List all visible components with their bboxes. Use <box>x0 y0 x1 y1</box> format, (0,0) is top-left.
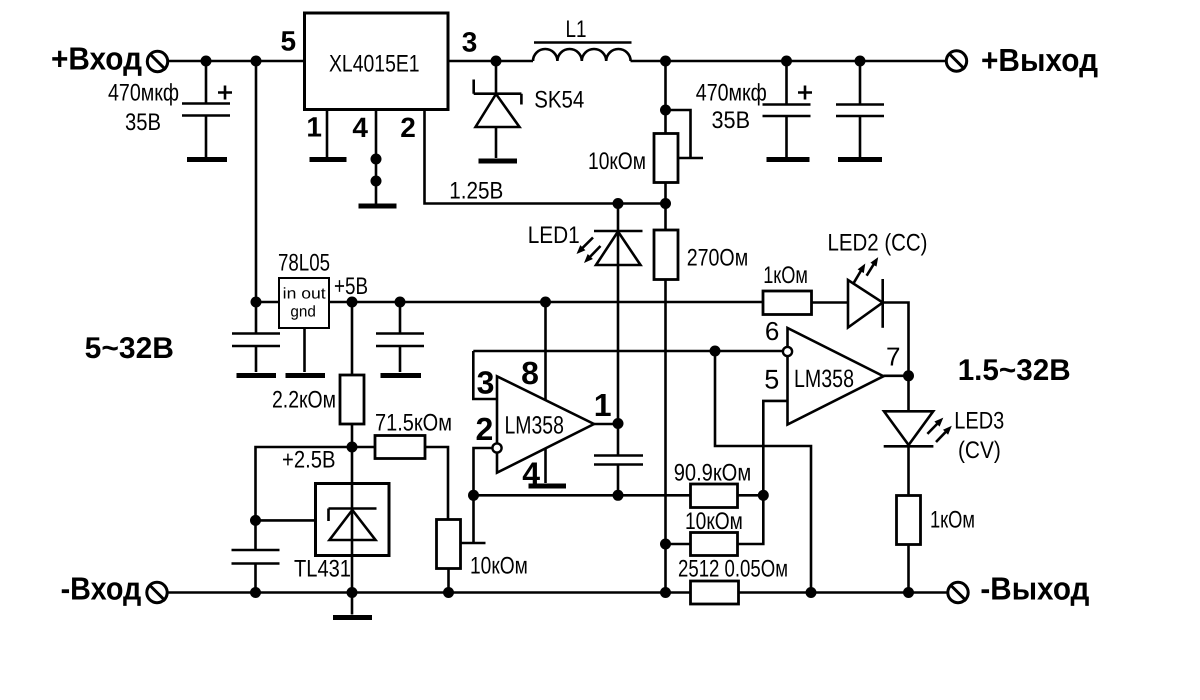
svg-text:LED1: LED1 <box>528 222 580 249</box>
svg-text:+Выход: +Выход <box>981 42 1098 78</box>
svg-text:78L05: 78L05 <box>278 250 330 277</box>
svg-text:8: 8 <box>521 355 539 391</box>
svg-text:LM358: LM358 <box>794 365 854 393</box>
svg-text:SK54: SK54 <box>534 87 584 114</box>
svg-text:1: 1 <box>594 387 612 423</box>
svg-text:2: 2 <box>476 411 494 447</box>
svg-text:3: 3 <box>477 364 495 400</box>
svg-text:1.5~32В: 1.5~32В <box>958 354 1071 387</box>
svg-text:4: 4 <box>522 456 540 492</box>
svg-text:2: 2 <box>400 112 416 143</box>
svg-text:5: 5 <box>281 26 297 57</box>
svg-text:6: 6 <box>765 316 779 346</box>
svg-text:(CV): (CV) <box>958 437 1001 464</box>
svg-text:1.25В: 1.25В <box>449 178 503 205</box>
svg-text:XL4015E1: XL4015E1 <box>329 51 420 78</box>
svg-text:5: 5 <box>764 365 779 395</box>
svg-text:35В: 35В <box>712 107 751 134</box>
svg-text:1кОм: 1кОм <box>763 262 808 289</box>
svg-text:L1: L1 <box>566 16 587 43</box>
svg-text:LED3: LED3 <box>954 408 1004 435</box>
svg-text:+5В: +5В <box>334 273 368 300</box>
svg-text:TL431: TL431 <box>294 556 351 583</box>
svg-text:10кОм: 10кОм <box>470 553 528 580</box>
svg-text:1кОм: 1кОм <box>930 507 975 534</box>
svg-text:270Ом: 270Ом <box>687 245 749 272</box>
svg-text:2.2кОм: 2.2кОм <box>272 387 336 414</box>
svg-text:3: 3 <box>462 27 478 58</box>
svg-text:gnd: gnd <box>290 304 316 321</box>
svg-text:470мкф: 470мкф <box>696 80 767 107</box>
svg-text:5~32В: 5~32В <box>85 332 174 365</box>
svg-text:+Вход: +Вход <box>51 41 142 77</box>
svg-text:470мкф: 470мкф <box>108 80 179 107</box>
svg-text:10кОм: 10кОм <box>588 148 646 175</box>
svg-text:LM358: LM358 <box>505 411 564 439</box>
svg-text:in out: in out <box>283 286 327 303</box>
svg-text:10кОм: 10кОм <box>685 508 743 535</box>
svg-text:90.9кОм: 90.9кОм <box>674 460 752 487</box>
svg-text:-Вход: -Вход <box>61 571 142 607</box>
svg-text:1: 1 <box>306 112 322 143</box>
svg-text:2512 0.05Ом: 2512 0.05Ом <box>678 556 788 583</box>
svg-text:71.5кОм: 71.5кОм <box>375 410 452 437</box>
svg-text:7: 7 <box>886 341 900 371</box>
svg-text:LED2 (CC): LED2 (CC) <box>828 230 928 257</box>
svg-text:+2.5В: +2.5В <box>282 447 336 474</box>
svg-text:35В: 35В <box>125 109 161 136</box>
svg-text:-Выход: -Выход <box>980 571 1089 607</box>
svg-text:4: 4 <box>352 112 368 143</box>
